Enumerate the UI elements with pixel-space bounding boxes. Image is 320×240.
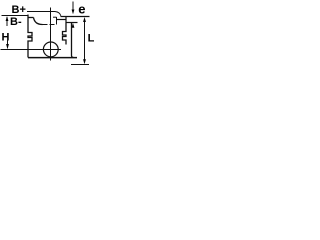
wire right zigzag (63, 23, 67, 45)
hole circle (43, 42, 58, 57)
wire stub (56, 17, 58, 25)
svg-text:e: e (78, 2, 85, 17)
arrowhead L up (83, 17, 86, 22)
arrowhead e up (72, 23, 75, 28)
wire left edge with zigzag tabs (28, 15, 32, 58)
svg-text:B+: B+ (12, 4, 26, 16)
arrowhead L down (83, 59, 86, 64)
wire bottom edge (28, 57, 77, 59)
svg-text:B-: B- (10, 16, 22, 28)
wire step surface (66, 22, 78, 24)
arrowhead H down (6, 44, 9, 49)
wire H dimension stem lower (7, 41, 9, 46)
wire inner lid line (57, 19, 66, 21)
wire B+ leader curve into top surface (55, 12, 61, 17)
wire right edge (72, 23, 74, 58)
arrowhead e down (72, 10, 75, 15)
svg-text:H: H (2, 31, 10, 43)
wire H dimension stem upper (6, 17, 8, 26)
wire L dimension stem (84, 20, 86, 60)
node horizontal centerline of hole (1, 49, 62, 51)
wire bottom extension line (71, 64, 89, 66)
wire top edge left (28, 17, 34, 19)
wire lid upper ledge (53, 16, 57, 18)
wire top curve (34, 18, 43, 25)
wire step edge (65, 17, 67, 23)
arrowhead H up (6, 16, 9, 21)
wire dashed mid line (43, 24, 57, 26)
node vertical centerline of hole (50, 8, 52, 61)
wire top surface and extension (61, 16, 90, 18)
wire B+ leader line (27, 11, 55, 13)
wire H top reference line (2, 15, 29, 17)
svg-text:L: L (88, 32, 95, 44)
wire e down arrow stem (72, 2, 74, 11)
